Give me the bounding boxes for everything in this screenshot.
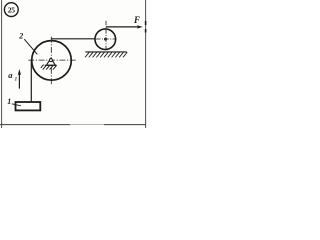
arrowhead of a1 (18, 69, 21, 75)
problem number badge circle (4, 3, 18, 17)
ground line under pulley (85, 51, 126, 53)
right border ink ticks (145, 21, 147, 25)
rope from wheel 2 top to pulley (52, 38, 105, 40)
pivot hatching under wheel axle (41, 65, 57, 70)
leader line for label 1 (12, 104, 21, 106)
card border left (1, 0, 3, 128)
background (0, 0, 150, 128)
card border bottom (0, 124, 70, 126)
block 1 (16, 102, 41, 110)
arrowhead of F (137, 25, 143, 28)
wheel 2 (large) (32, 41, 72, 81)
svg-text:1: 1 (15, 78, 18, 83)
svg-text:2: 2 (18, 32, 23, 41)
wheel 2 vertical centerline (50, 37, 52, 85)
pulley vertical centerline (105, 21, 107, 51)
pulley (small, top right) (95, 29, 116, 50)
card border right (145, 0, 147, 128)
pivot triangle of wheel axle support (46, 58, 55, 65)
svg-text:25: 25 (8, 5, 15, 14)
leader line for label 2 (24, 39, 37, 54)
pulley pin (105, 38, 107, 40)
svg-text:1: 1 (7, 97, 11, 106)
wheel 2 horizontal centerline (28, 59, 75, 61)
pivot base line (45, 64, 57, 66)
svg-text:F: F (133, 15, 140, 25)
pulley horizontal centerline (96, 38, 117, 40)
ground hatching under pulley (85, 52, 127, 57)
svg-text:a: a (8, 70, 13, 80)
pivot pin circle (49, 59, 52, 62)
rope with force F (106, 26, 140, 28)
rope from wheel 2 to block 1 (30, 60, 32, 102)
acceleration arrow a1 (18, 74, 20, 89)
